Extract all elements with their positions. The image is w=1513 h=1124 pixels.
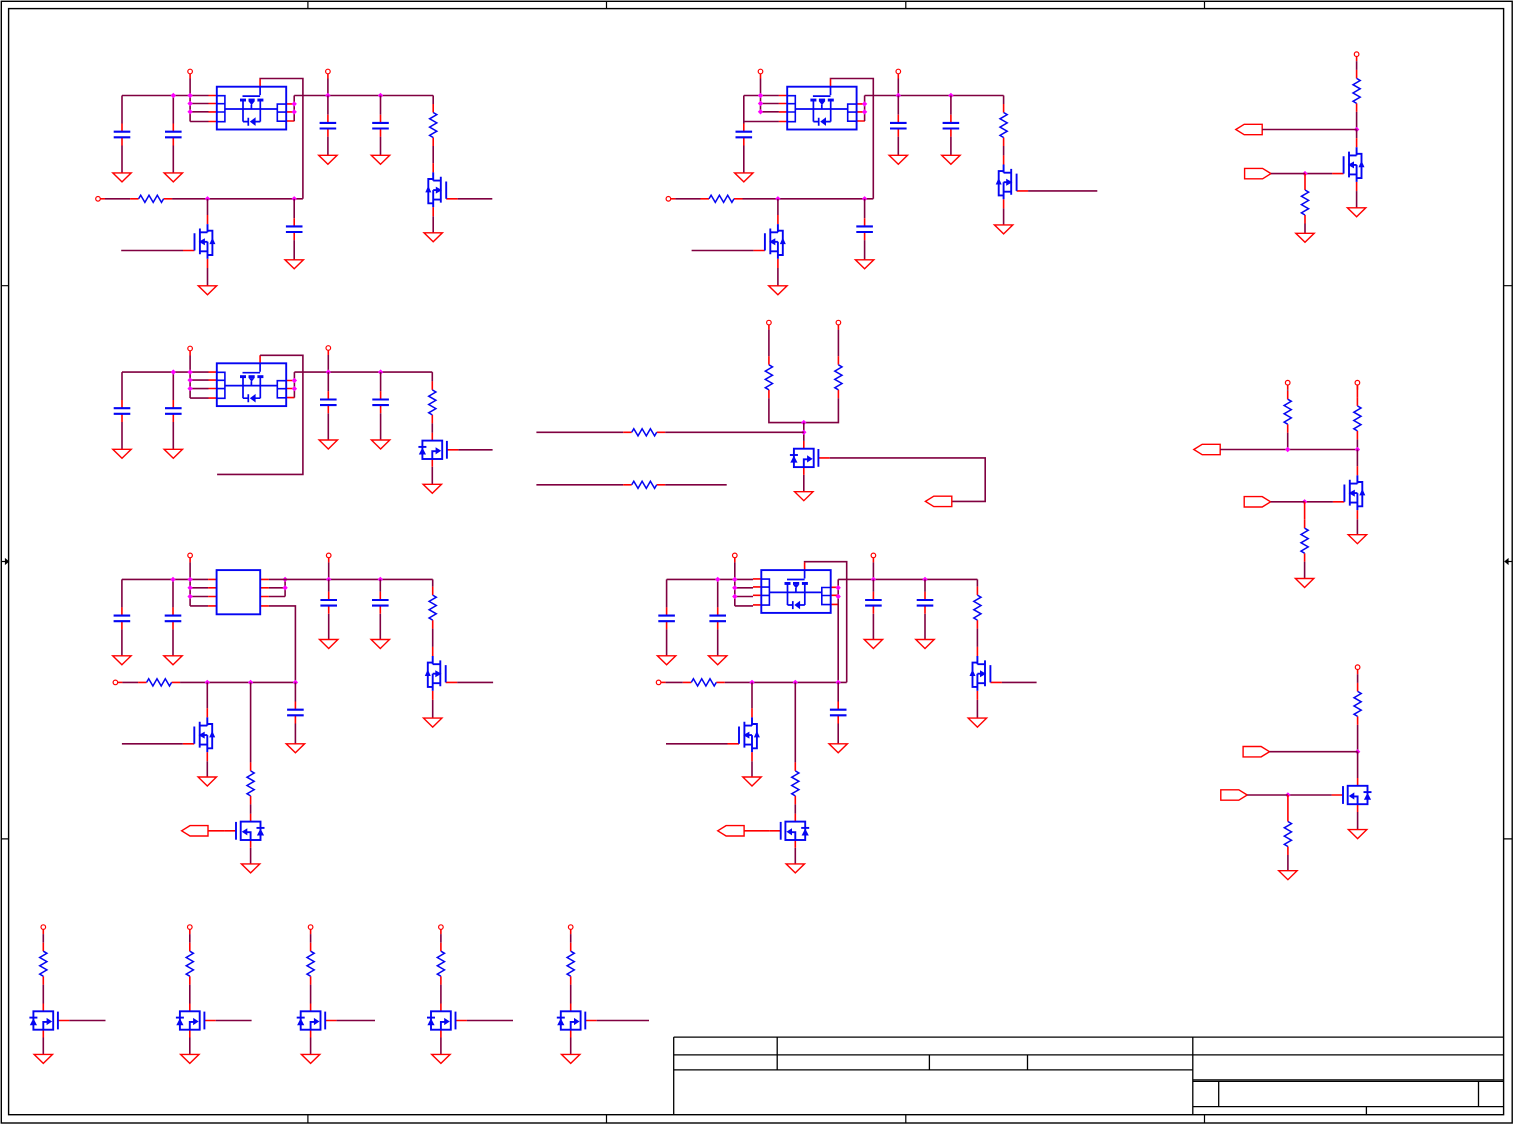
resistor R2 [130,195,172,202]
wire [1356,191,1358,208]
capacitor C5 [286,218,303,240]
wire [950,96,952,115]
wire [1304,224,1306,234]
ground [657,656,675,665]
wire [42,985,44,1004]
wire [865,95,1004,97]
wire [172,422,174,449]
port P7 [1354,52,1359,61]
ground [181,1054,199,1063]
wire [260,79,303,199]
junction [187,109,192,114]
wire [1305,501,1333,503]
port P5 [896,69,901,78]
wire [803,475,805,492]
wire [121,372,123,400]
wire [432,629,434,647]
wire [432,216,434,233]
wire [190,605,208,607]
wire [570,985,572,1004]
wire [864,199,866,218]
wire [536,484,623,486]
wire [216,1020,252,1022]
wire [172,146,174,173]
wire [328,562,330,579]
wire [190,121,208,123]
capacitor C18 [287,702,304,724]
wire [190,111,208,113]
wire [837,330,839,357]
resistor R12 [1284,391,1291,433]
wire [830,458,985,502]
junction [292,386,297,391]
junction [801,430,806,435]
port P25 [568,925,573,934]
transistor Q4 [753,215,785,268]
capacitor C7 [890,115,907,137]
junction [871,577,876,582]
capacitor C19 [658,607,675,629]
capacitor C14 [114,607,131,629]
wire [666,681,683,683]
capacitor C8 [943,115,960,137]
wire [327,372,329,391]
wire [872,614,874,640]
junction [187,594,192,599]
wire [327,96,329,115]
port P11 [836,320,841,329]
port P16 [113,680,122,685]
wire [1271,501,1305,503]
wire [190,587,208,589]
junction [1354,127,1359,132]
wire [837,724,839,744]
wire [207,199,209,215]
pin [1287,795,1289,813]
capacitor C3 [320,115,337,137]
ground [164,449,182,458]
wire [536,431,623,433]
ground [1348,535,1366,544]
wire [570,934,572,943]
resistor R15 [429,587,436,629]
wire [769,398,804,422]
junction [378,577,383,582]
junction [187,386,192,391]
wire [1356,439,1358,449]
capacitor C17 [372,592,389,614]
wire [457,681,493,683]
title block [674,1037,1504,1115]
capacitor C15 [165,607,182,629]
ic U4 [208,570,269,614]
junction [325,93,330,98]
wire [379,614,381,640]
wire [432,579,434,586]
junction [1355,447,1360,452]
port P2 [326,69,331,78]
resistor R3 [1000,104,1007,146]
wire [744,830,769,832]
wire [294,724,296,744]
junction [775,196,780,201]
port P6 [666,197,675,202]
wire [794,682,796,762]
wire [379,579,381,591]
wire [172,629,174,655]
ground [424,718,442,727]
connector arrow [1236,124,1262,134]
ground [164,173,182,182]
junction [836,594,841,599]
junction [758,101,763,106]
wire [1247,794,1288,796]
capacitor C9 [856,218,873,240]
port P1 [188,69,193,78]
ground [113,449,131,458]
border center arrow right [1504,558,1512,565]
ground [994,225,1012,234]
resistor R4 [701,195,743,202]
capacitor C6 [736,124,753,146]
port P4 [758,69,763,78]
connector arrow [1245,168,1271,178]
junction [732,585,737,590]
port P19 [656,680,665,685]
wire [310,934,312,943]
resistor R5 [1353,70,1360,112]
ground [164,656,182,665]
resistor R16 [138,679,180,686]
wire [431,423,433,432]
wire [1002,681,1037,683]
wire [208,830,225,832]
junction [170,577,175,582]
port P15 [326,553,331,562]
junction [1355,749,1360,754]
junction [293,680,298,685]
ground [301,1054,319,1063]
junction [1302,171,1307,176]
wire [458,449,492,451]
wire [189,356,191,399]
wire [250,848,252,864]
ground [34,1054,52,1063]
junction [292,378,297,383]
ground [864,640,882,649]
wire [803,423,805,441]
wire [294,371,432,373]
resistor R21 [1354,683,1361,725]
ground [371,640,389,649]
wire [976,629,978,647]
wire [666,579,668,607]
capacitor C13 [372,391,389,413]
wire [777,199,779,215]
resistor R1 [430,104,437,146]
wire [665,431,804,433]
ground [855,260,873,269]
port P18 [871,553,876,562]
wire [805,562,847,683]
transistor Q15 [1332,778,1372,812]
capacitor C2 [165,124,182,146]
wire [838,578,977,580]
junction [1285,792,1290,797]
wire [1357,674,1359,683]
connector arrow [1221,790,1247,800]
wire [190,379,208,381]
resistor R17 [247,762,254,804]
connector arrow [718,826,744,836]
port P14 [188,553,193,562]
wire [172,198,303,200]
wire [666,629,668,655]
wire [725,681,847,683]
connector arrow [925,496,951,506]
wire [310,1038,312,1055]
capacitor C1 [114,124,131,146]
transistor Q20 [557,1004,597,1038]
wire [190,103,208,105]
ground [1347,208,1365,217]
wire [380,413,382,440]
wire [976,700,978,718]
ground [942,155,960,164]
junction [836,585,841,590]
ground [786,864,804,873]
junction [1302,499,1307,504]
junction [326,369,331,374]
wire [269,606,296,683]
wire [872,579,874,591]
wire [924,579,926,591]
wire [121,629,123,655]
wire [189,79,191,122]
ground [241,864,259,873]
transistor Q1 [425,163,457,216]
resistor R27 [567,943,574,985]
wire [190,397,208,399]
wire [432,96,434,105]
ground [319,440,337,449]
port P24 [439,925,444,934]
capacitor C20 [709,607,726,629]
wire [1305,173,1332,175]
wire [751,761,753,777]
ic U3 [209,355,295,406]
port P20 [1355,665,1360,674]
junction [948,93,953,98]
transistor Q11 [225,814,265,848]
wire [666,743,728,745]
wire [743,198,874,200]
wire [1357,752,1359,778]
transistor Q19 [427,1004,467,1038]
junction [292,196,297,201]
wire [293,372,295,398]
transistor Q14 [769,814,809,848]
resistor R10 [623,429,665,436]
wire [42,1038,44,1055]
junction [758,93,763,98]
wire [189,1038,191,1055]
wire [794,804,796,813]
ground [319,155,337,164]
wire [1003,96,1005,105]
ic U5 [753,562,839,613]
junction [1285,447,1290,452]
junction [922,577,927,582]
ground [371,155,389,164]
capacitor C23 [830,702,847,724]
ground [1279,871,1297,880]
junction [187,585,192,590]
wire [1271,173,1305,175]
wire [717,579,719,607]
resistor R13 [1354,397,1361,439]
pin [1356,385,1358,397]
junction [378,93,383,98]
wire [1220,449,1357,451]
transistor Q9 [425,647,457,700]
wire [760,79,762,112]
wire [440,934,442,943]
wire [692,250,754,252]
wire [180,681,295,683]
wire [837,579,839,682]
pin [1304,174,1306,182]
ic U1 [209,79,295,130]
junction [715,577,720,582]
ground [769,286,787,295]
wire [1356,61,1358,70]
ground [968,718,986,727]
resistor R9 [835,356,842,398]
port P3 [96,197,105,202]
port P23 [308,925,313,934]
junction [862,109,867,114]
wire [269,578,433,580]
transistor Q12 [970,647,1002,700]
transistor Q3 [996,155,1028,208]
wire [597,1020,649,1022]
wire [864,240,866,260]
wire [217,355,303,474]
ground [1295,579,1313,588]
junction [801,420,806,425]
wire [206,682,208,708]
wire [327,137,329,156]
wire [744,95,779,97]
wire [207,268,209,286]
ground [113,173,131,182]
ground [916,640,934,649]
wire [189,934,191,943]
ground [285,260,303,269]
junction [205,680,210,685]
ground [371,440,389,449]
wire [761,103,779,105]
ground [795,492,813,501]
transistor Q7 [790,441,830,475]
wire [269,587,285,589]
capacitor C4 [372,115,389,137]
port P21 [41,925,46,934]
wire [1270,751,1358,753]
wire [1028,190,1097,192]
resistor R8 [765,356,772,398]
wire [431,467,433,485]
connector arrow [1243,747,1269,757]
junction [749,680,754,685]
capacitor C16 [320,592,337,614]
wire [458,198,493,200]
wire [294,95,433,97]
capacitor C22 [917,592,934,614]
junction [862,196,867,201]
wire [189,985,191,1004]
transistor Q8 [1333,466,1365,519]
wire [1288,794,1332,796]
port P22 [188,925,193,934]
junction [187,369,192,374]
connector arrow [1194,444,1220,454]
wire [717,629,719,655]
wire [735,605,753,607]
junction [248,680,253,685]
wire [122,95,209,97]
wire [794,848,796,864]
wire [804,398,839,422]
port P10 [767,320,772,329]
wire [1357,725,1359,752]
wire [864,96,866,122]
wire [122,681,138,683]
transistor Q2 [183,215,215,268]
port P9 [326,346,331,355]
wire [431,372,433,381]
transistor Q6 [418,433,458,467]
wire [667,578,753,580]
wire [768,330,770,357]
junction [758,109,763,114]
junction [187,93,192,98]
border center arrow left [2,558,10,565]
junction [205,196,210,201]
ground [424,233,442,242]
ground [198,777,216,786]
wire [284,579,286,596]
wire [250,682,252,762]
wire [337,1020,375,1022]
junction [793,680,798,685]
ground [113,656,131,665]
wire [897,137,899,156]
ground [432,1054,450,1063]
wire [328,579,330,591]
resistor R6 [1301,182,1308,224]
resistor R20 [792,762,799,804]
wire [744,121,779,123]
wire [897,79,899,96]
transistor Q13 [728,708,760,761]
wire [1356,130,1358,139]
wire [1356,519,1358,534]
wire [380,137,382,156]
wire [380,96,382,115]
transistor Q17 [176,1004,216,1038]
